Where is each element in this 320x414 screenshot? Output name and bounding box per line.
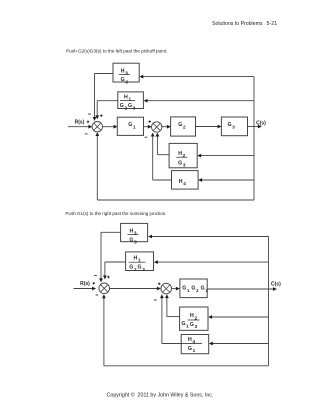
- svg-text:C(s): C(s): [256, 120, 266, 126]
- svg-text:C(s): C(s): [271, 282, 281, 288]
- svg-text:R(s): R(s): [75, 119, 85, 125]
- svg-text:Solutions to Problems: Solutions to Problems: [212, 21, 263, 27]
- svg-text:Push G1(s) to the right past t: Push G1(s) to the right past the summing…: [65, 211, 166, 216]
- svg-text:5-21: 5-21: [267, 21, 277, 27]
- svg-text:R(s): R(s): [80, 281, 90, 287]
- svg-text:G1G2G3: G1G2G3: [182, 286, 208, 293]
- svg-text:Push G2(s)G3(s) to the left pa: Push G2(s)G3(s) to the left past the pic…: [66, 48, 168, 53]
- svg-text:Copyright © 2011 by John Wile: Copyright © 2011 by John Wiley & Sons, I…: [107, 391, 214, 398]
